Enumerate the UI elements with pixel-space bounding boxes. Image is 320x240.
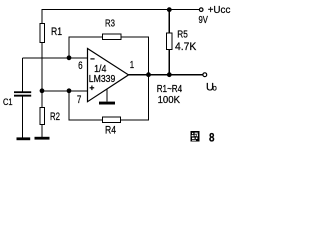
svg-text:R4: R4 <box>105 125 116 137</box>
svg-text:7: 7 <box>77 94 82 106</box>
svg-text:R1~R4: R1~R4 <box>157 84 183 95</box>
svg-text:C1: C1 <box>3 97 13 107</box>
svg-text:R1: R1 <box>51 26 62 38</box>
svg-text:4.7K: 4.7K <box>175 41 197 53</box>
svg-text:o: o <box>212 84 217 93</box>
svg-text:1: 1 <box>130 60 135 71</box>
svg-text:R2: R2 <box>50 111 60 123</box>
svg-text:+Ucc: +Ucc <box>208 5 231 16</box>
svg-text:R3: R3 <box>105 19 115 30</box>
svg-text:LM339: LM339 <box>89 74 116 85</box>
svg-text:100K: 100K <box>158 95 181 106</box>
svg-text:6: 6 <box>78 60 83 72</box>
svg-text:9V: 9V <box>199 15 209 26</box>
svg-text:R5: R5 <box>177 30 188 41</box>
svg-text:8: 8 <box>209 131 215 145</box>
